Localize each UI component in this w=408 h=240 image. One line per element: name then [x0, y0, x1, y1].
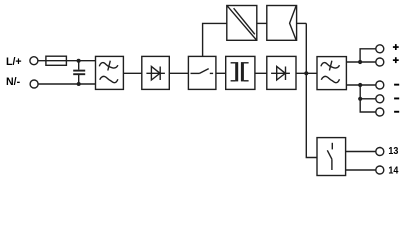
terminal +1: [376, 45, 384, 53]
wire relay output 14: [346, 169, 376, 171]
node - junction 1: [358, 83, 362, 87]
node - junction 2: [358, 97, 362, 101]
boost chevron symbol: [290, 6, 296, 40]
terminal -2: [376, 95, 384, 103]
boost output box (top): [267, 6, 297, 41]
wire DC bus vertical: [306, 23, 317, 157]
transformer box: [226, 56, 255, 89]
output filter sine top: [321, 61, 340, 71]
switch S1: [191, 69, 214, 74]
label + 1: [393, 44, 399, 50]
wire + branch up: [360, 49, 376, 62]
input filter sine top: [99, 61, 118, 71]
node DC bus junction: [304, 71, 308, 75]
rectifier box 2: [267, 56, 296, 89]
input filter sine bottom: [100, 76, 118, 82]
terminal -3: [376, 108, 384, 116]
label + 2: [393, 57, 399, 63]
wire - output: [346, 84, 376, 86]
DC/DC converter box (top): [227, 6, 257, 41]
output filter sine bottom: [321, 76, 339, 82]
terminal N/-: [30, 80, 38, 88]
transformer T1: [231, 62, 249, 81]
wire transformer to rectifier 2: [255, 72, 267, 74]
terminal L/+: [30, 57, 38, 65]
label - 3: [394, 111, 399, 113]
svg-text:13: 13: [388, 146, 398, 157]
switch box: [188, 56, 216, 89]
node N junction: [77, 82, 81, 86]
terminal 14: [376, 166, 384, 174]
wire filter to rectifier: [123, 72, 141, 74]
diode D2: [271, 67, 290, 81]
wire relay output 13: [346, 151, 376, 153]
fuse F1: [46, 56, 67, 65]
svg-text:14: 14: [388, 165, 398, 176]
relay contact box: [317, 138, 346, 176]
wire rectifier 2 to node: [296, 72, 317, 74]
terminal +2: [376, 58, 384, 66]
node + junction: [358, 60, 362, 64]
rectifier box 1: [142, 56, 170, 89]
wire switch to boost branch: [203, 23, 227, 56]
DC/DC diagonal symbol: [227, 6, 256, 40]
svg-text:N/-: N/-: [6, 76, 21, 88]
wire - branch mid: [360, 98, 376, 100]
relay contact K1: [327, 143, 332, 170]
terminal 13: [376, 148, 384, 156]
diode D1: [146, 67, 165, 81]
svg-text:L/+: L/+: [6, 56, 22, 68]
terminal -1: [376, 81, 384, 89]
input filter box: [96, 56, 124, 89]
wire switch to transformer: [216, 72, 226, 74]
wire + output: [346, 61, 376, 63]
wire boost box to DC bus: [297, 22, 307, 24]
wire N input: [38, 83, 95, 85]
output filter box: [317, 57, 346, 90]
label - 1: [394, 84, 399, 86]
label - 2: [394, 98, 399, 100]
wire - branch down: [360, 85, 376, 112]
wire rectifier to switch: [169, 72, 188, 74]
wire L input: [38, 60, 95, 62]
wire between top boxes: [257, 22, 267, 24]
capacitor C1: [73, 61, 85, 84]
node L junction: [77, 59, 81, 63]
